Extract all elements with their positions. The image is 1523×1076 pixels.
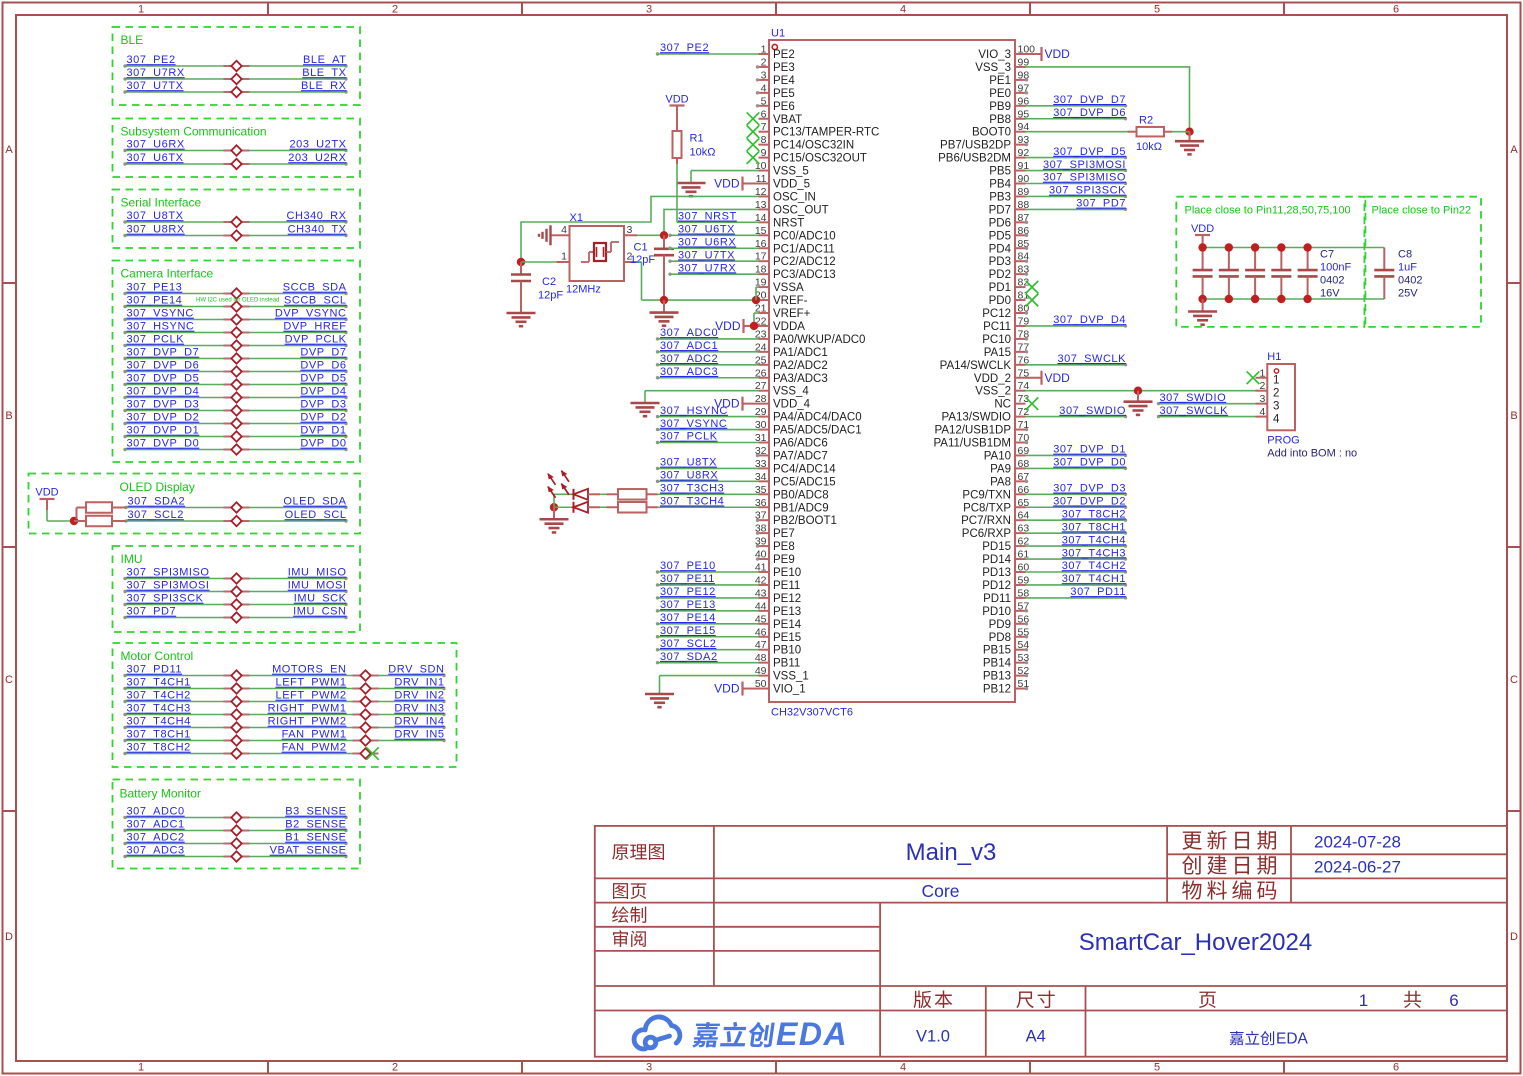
svg-text:1: 1 bbox=[1273, 375, 1279, 387]
svg-text:IMU_MOSI: IMU_MOSI bbox=[288, 580, 347, 592]
svg-text:DRV_IN5: DRV_IN5 bbox=[394, 729, 444, 741]
svg-text:1: 1 bbox=[561, 251, 567, 263]
svg-text:VDD: VDD bbox=[714, 682, 740, 696]
svg-text:PC10: PC10 bbox=[982, 334, 1011, 346]
net labels 307_ADC0-3 U1 pins 23-26 bbox=[656, 327, 759, 379]
svg-text:SCCB_SCL: SCCB_SCL bbox=[284, 295, 346, 307]
resistor R1 10k NRST pull-up with VDD bbox=[665, 94, 715, 165]
svg-text:307_U7RX: 307_U7RX bbox=[127, 67, 185, 79]
svg-text:307_SCL2: 307_SCL2 bbox=[128, 509, 184, 521]
svg-text:R2: R2 bbox=[1139, 115, 1153, 127]
title label 版本 bbox=[914, 991, 953, 1009]
VDD and I2C pull-up resistors for OLED bbox=[35, 487, 126, 527]
net labels U1 pins 66-58 bbox=[1026, 483, 1128, 600]
svg-text:307_SDA2: 307_SDA2 bbox=[660, 651, 718, 663]
svg-text:BLE: BLE bbox=[121, 33, 144, 47]
svg-text:D: D bbox=[5, 931, 13, 943]
svg-text:307_PD11: 307_PD11 bbox=[127, 664, 183, 676]
svg-text:307_U8TX: 307_U8TX bbox=[127, 210, 184, 222]
svg-text:307_U6RX: 307_U6RX bbox=[678, 236, 736, 248]
svg-text:VSSA: VSSA bbox=[773, 282, 804, 294]
svg-text:307_T4CH2: 307_T4CH2 bbox=[127, 690, 191, 702]
svg-text:307_PE14: 307_PE14 bbox=[660, 612, 716, 624]
svg-text:PE12: PE12 bbox=[773, 593, 801, 605]
svg-text:12pF: 12pF bbox=[630, 254, 655, 266]
net labels 307_DVP_D7 D6 U1 pins 96 95 bbox=[1026, 94, 1128, 120]
net labels 307_U6TX U6RX U7TX U7RX U1 pins 15-18 bbox=[668, 224, 758, 276]
wire crystal pin 3 to OSC_OUT junction bbox=[637, 231, 668, 239]
svg-text:HW I2C used for OLED instead: HW I2C used for OLED instead bbox=[196, 298, 279, 304]
svg-text:PC1/ADC11: PC1/ADC11 bbox=[773, 243, 835, 255]
svg-text:VDD: VDD bbox=[665, 94, 688, 106]
svg-text:DVP_PCLK: DVP_PCLK bbox=[285, 334, 347, 346]
ground below decoupling bank bbox=[1188, 299, 1217, 325]
svg-text:307_U6TX: 307_U6TX bbox=[127, 152, 184, 164]
svg-text:307_ADC1: 307_ADC1 bbox=[660, 340, 718, 352]
wire net 307_SWCLK to H1 pin 4 bbox=[1157, 405, 1256, 419]
svg-text:307_ADC0: 307_ADC0 bbox=[660, 327, 718, 339]
svg-text:3: 3 bbox=[1273, 400, 1279, 412]
svg-text:307_DVP_D3: 307_DVP_D3 bbox=[127, 399, 200, 411]
capacitor C7 unit 2 100nF bbox=[1219, 243, 1239, 303]
svg-text:PC15/OSC32OUT: PC15/OSC32OUT bbox=[773, 153, 867, 165]
svg-text:PE3: PE3 bbox=[773, 62, 795, 74]
svg-text:PA4/ADC4/DAC0: PA4/ADC4/DAC0 bbox=[773, 412, 862, 424]
svg-text:PB11: PB11 bbox=[773, 658, 800, 670]
svg-text:307_PCLK: 307_PCLK bbox=[127, 334, 185, 346]
svg-text:6: 6 bbox=[1393, 4, 1399, 16]
svg-text:307_PE10: 307_PE10 bbox=[660, 560, 716, 572]
svg-text:PE15: PE15 bbox=[773, 632, 801, 644]
no-connect X on H1 pin 1 bbox=[1247, 371, 1260, 384]
svg-text:307_DVP_D2: 307_DVP_D2 bbox=[1053, 495, 1126, 507]
svg-text:25V: 25V bbox=[1398, 288, 1418, 300]
svg-text:R1: R1 bbox=[690, 133, 704, 145]
IMU group box bbox=[113, 546, 361, 632]
svg-text:PC3/ADC13: PC3/ADC13 bbox=[773, 269, 836, 281]
svg-text:VDD_5: VDD_5 bbox=[773, 179, 810, 191]
svg-text:PA7/ADC7: PA7/ADC7 bbox=[773, 450, 828, 462]
svg-text:2024-06-27: 2024-06-27 bbox=[1314, 858, 1401, 877]
svg-text:NRST: NRST bbox=[773, 217, 804, 229]
svg-text:PB1/ADC9: PB1/ADC9 bbox=[773, 502, 829, 514]
svg-text:NC: NC bbox=[994, 399, 1011, 411]
C8 value labels bbox=[1398, 249, 1422, 300]
svg-text:307_T3CH3: 307_T3CH3 bbox=[660, 483, 724, 495]
svg-text:3: 3 bbox=[646, 1062, 652, 1074]
svg-text:307_SPI3SCK: 307_SPI3SCK bbox=[1049, 185, 1126, 197]
svg-text:307_VSYNC: 307_VSYNC bbox=[127, 308, 194, 320]
svg-text:BOOT0: BOOT0 bbox=[972, 127, 1011, 139]
svg-text:VREF-: VREF- bbox=[773, 295, 808, 307]
svg-text:PA10: PA10 bbox=[984, 450, 1011, 462]
svg-text:307_DVP_D1: 307_DVP_D1 bbox=[127, 425, 200, 437]
svg-text:H1: H1 bbox=[1267, 351, 1281, 363]
title label 图页 bbox=[613, 883, 646, 899]
svg-text:307_SPI3MOSI: 307_SPI3MOSI bbox=[1043, 159, 1126, 171]
svg-text:307_SWDIO: 307_SWDIO bbox=[1059, 405, 1126, 417]
svg-text:307_PE14: 307_PE14 bbox=[127, 295, 183, 307]
svg-text:PA9: PA9 bbox=[990, 463, 1011, 475]
wire OSC_IN U1 pin12 to crystal bbox=[517, 196, 759, 266]
svg-text:Serial Interface: Serial Interface bbox=[121, 196, 202, 210]
title label 创建日期 bbox=[1182, 855, 1276, 874]
svg-text:307_SWCLK: 307_SWCLK bbox=[1160, 405, 1229, 417]
svg-text:PC12: PC12 bbox=[982, 308, 1011, 320]
svg-text:PA1/ADC1: PA1/ADC1 bbox=[773, 347, 828, 359]
svg-text:VDD: VDD bbox=[1045, 371, 1071, 385]
net labels 307_HSYNC VSYNC PCLK U1 pins 29-31 bbox=[656, 405, 759, 444]
svg-text:PA15: PA15 bbox=[984, 347, 1011, 359]
svg-text:PE4: PE4 bbox=[773, 75, 795, 87]
svg-text:6: 6 bbox=[1449, 991, 1458, 1010]
svg-text:DVP_D2: DVP_D2 bbox=[300, 412, 346, 424]
svg-text:PE7: PE7 bbox=[773, 528, 795, 540]
svg-text:307_PE13: 307_PE13 bbox=[127, 282, 183, 294]
svg-text:1: 1 bbox=[138, 1062, 144, 1074]
svg-text:PC6/RXP: PC6/RXP bbox=[962, 528, 1012, 540]
net label 307_PE2 wire to U1 pin 1 bbox=[656, 42, 759, 56]
svg-text:PE9: PE9 bbox=[773, 554, 795, 566]
H1 note Add into BOM : no bbox=[1267, 448, 1357, 460]
title page numbers 页 1 共 6 bbox=[1199, 991, 1459, 1010]
svg-text:307_T4CH1: 307_T4CH1 bbox=[1062, 573, 1126, 585]
svg-text:2024-07-28: 2024-07-28 bbox=[1314, 833, 1401, 852]
svg-text:VDD: VDD bbox=[715, 319, 741, 333]
title value SmartCar_Hover2024 bbox=[1079, 929, 1312, 956]
svg-text:307_SWCLK: 307_SWCLK bbox=[1057, 353, 1126, 365]
svg-text:Core: Core bbox=[922, 881, 960, 901]
title label 绘制 bbox=[612, 906, 646, 923]
svg-text:VDDA: VDDA bbox=[773, 321, 805, 333]
svg-text:Main_v3: Main_v3 bbox=[906, 839, 997, 866]
svg-text:VIO_3: VIO_3 bbox=[978, 49, 1011, 61]
svg-text:12MHz: 12MHz bbox=[566, 284, 601, 296]
svg-text:307_PD7: 307_PD7 bbox=[1076, 198, 1126, 210]
svg-text:PB7/USB2DP: PB7/USB2DP bbox=[940, 140, 1011, 152]
svg-text:PE6: PE6 bbox=[773, 101, 795, 113]
svg-text:307_ADC2: 307_ADC2 bbox=[127, 832, 185, 844]
title label 审阅 bbox=[613, 930, 646, 947]
svg-text:203_U2RX: 203_U2RX bbox=[288, 152, 346, 164]
svg-text:PD12: PD12 bbox=[982, 580, 1011, 592]
svg-text:DVP_D7: DVP_D7 bbox=[300, 347, 346, 359]
svg-text:307_DVP_D4: 307_DVP_D4 bbox=[1053, 314, 1126, 326]
Subsystem Communication group box bbox=[113, 119, 361, 178]
svg-text:V1.0: V1.0 bbox=[916, 1028, 950, 1046]
Camera Interface group box bbox=[113, 261, 361, 463]
svg-text:DVP_D6: DVP_D6 bbox=[300, 360, 346, 372]
svg-text:100nF: 100nF bbox=[1320, 262, 1351, 274]
svg-text:307_T8CH2: 307_T8CH2 bbox=[1062, 508, 1126, 520]
title label 原理图 bbox=[612, 844, 664, 860]
svg-text:C2: C2 bbox=[542, 276, 556, 288]
svg-text:PB12: PB12 bbox=[983, 684, 1011, 696]
svg-text:X1: X1 bbox=[570, 212, 583, 224]
wire crystal pin 2 to ground rail bbox=[637, 262, 642, 300]
svg-text:LEFT_PWM2: LEFT_PWM2 bbox=[276, 690, 347, 702]
svg-text:PB14: PB14 bbox=[983, 658, 1012, 670]
svg-text:Subsystem Communication: Subsystem Communication bbox=[121, 125, 267, 139]
svg-text:PB10: PB10 bbox=[773, 645, 801, 657]
svg-text:VSS_4: VSS_4 bbox=[773, 386, 809, 398]
OLED Display group box bbox=[29, 474, 361, 534]
svg-text:FAN_PWM1: FAN_PWM1 bbox=[282, 729, 347, 741]
svg-text:307_PD7: 307_PD7 bbox=[127, 606, 177, 618]
capacitor C7 unit 1 100nF bbox=[1193, 243, 1213, 303]
svg-text:1: 1 bbox=[1359, 991, 1368, 1010]
svg-text:307_ADC0: 307_ADC0 bbox=[127, 806, 185, 818]
net label 307_SWDIO U1 pin 72 bbox=[1026, 405, 1128, 419]
svg-text:DVP_D3: DVP_D3 bbox=[300, 399, 346, 411]
svg-text:PC11: PC11 bbox=[983, 321, 1011, 333]
svg-text:307_U7RX: 307_U7RX bbox=[678, 262, 736, 274]
svg-text:2: 2 bbox=[761, 56, 767, 68]
ground at U1 pin 27 VSS_4 bbox=[631, 391, 759, 417]
svg-text:Place close to Pin11,28,50,75,: Place close to Pin11,28,50,75,100 bbox=[1185, 205, 1351, 217]
svg-text:3: 3 bbox=[761, 69, 767, 81]
wire net 307_NRST U1 pin 14 bbox=[677, 164, 759, 223]
capacitor C2 12pF with ground bbox=[507, 262, 564, 326]
svg-text:PE8: PE8 bbox=[773, 541, 795, 553]
svg-text:4: 4 bbox=[761, 82, 767, 94]
svg-text:SCCB_SDA: SCCB_SDA bbox=[283, 282, 347, 294]
svg-text:PE10: PE10 bbox=[773, 567, 801, 579]
svg-text:A4: A4 bbox=[1026, 1028, 1046, 1046]
title label 尺寸 bbox=[1016, 991, 1054, 1009]
svg-text:5: 5 bbox=[761, 95, 767, 107]
svg-text:PD9: PD9 bbox=[989, 619, 1011, 631]
svg-text:DRV_IN2: DRV_IN2 bbox=[394, 690, 444, 702]
svg-text:307_DVP_D7: 307_DVP_D7 bbox=[127, 347, 200, 359]
svg-text:CH340_RX: CH340_RX bbox=[286, 210, 346, 222]
connector H1 4-pin programming header bbox=[1256, 351, 1296, 430]
svg-text:RIGHT_PWM1: RIGHT_PWM1 bbox=[268, 703, 347, 715]
svg-text:DVP_VSYNC: DVP_VSYNC bbox=[275, 308, 347, 320]
svg-text:PD2: PD2 bbox=[989, 269, 1011, 281]
C7 value labels bbox=[1320, 249, 1351, 300]
U1 pins 1-100 with numbers and names bbox=[755, 44, 1035, 696]
placement note box for C7 bbox=[1176, 197, 1364, 327]
svg-text:307_DVP_D5: 307_DVP_D5 bbox=[1053, 146, 1126, 158]
H1 value PROG bbox=[1267, 435, 1299, 447]
decoupling bank rails bbox=[1203, 248, 1385, 300]
capacitor C8 1uF bbox=[1374, 248, 1394, 300]
svg-text:4: 4 bbox=[561, 224, 567, 236]
svg-text:PD6: PD6 bbox=[989, 217, 1011, 229]
svg-text:BLE_TX: BLE_TX bbox=[302, 67, 346, 79]
svg-text:307_PE11: 307_PE11 bbox=[660, 573, 715, 585]
svg-text:C7: C7 bbox=[1320, 249, 1334, 261]
svg-text:307_PE15: 307_PE15 bbox=[660, 625, 716, 637]
svg-text:DVP_D0: DVP_D0 bbox=[300, 438, 346, 450]
svg-text:BLE_RX: BLE_RX bbox=[301, 80, 347, 92]
svg-text:307_PE2: 307_PE2 bbox=[127, 54, 176, 66]
svg-text:307_NRST: 307_NRST bbox=[678, 211, 737, 223]
title value Main_v3 bbox=[906, 839, 997, 866]
svg-text:3: 3 bbox=[1259, 393, 1265, 405]
svg-text:Motor Control: Motor Control bbox=[121, 649, 194, 663]
capacitor C7 unit 5 100nF bbox=[1298, 243, 1318, 303]
svg-text:PC8/TXP: PC8/TXP bbox=[963, 502, 1011, 514]
svg-text:VIO_1: VIO_1 bbox=[773, 684, 806, 696]
svg-text:PA12/USB1DP: PA12/USB1DP bbox=[935, 425, 1012, 437]
svg-text:307_HSYNC: 307_HSYNC bbox=[660, 405, 728, 417]
svg-text:LEFT_PWM1: LEFT_PWM1 bbox=[276, 677, 347, 689]
svg-text:1: 1 bbox=[138, 4, 144, 16]
svg-text:PE1: PE1 bbox=[989, 75, 1011, 87]
svg-text:OSC_IN: OSC_IN bbox=[773, 191, 816, 203]
resistor series LED1 to U1 pin 35, net 307_T3CH3 bbox=[618, 483, 759, 500]
svg-text:B: B bbox=[5, 410, 12, 422]
svg-text:VBAT: VBAT bbox=[773, 114, 802, 126]
open pin end dots on U1 bbox=[756, 65, 1028, 690]
Serial Interface group box bbox=[113, 190, 361, 249]
svg-text:OLED_SCL: OLED_SCL bbox=[285, 509, 347, 521]
svg-text:PB0/ADC8: PB0/ADC8 bbox=[773, 489, 829, 501]
svg-text:307_SPI3SCK: 307_SPI3SCK bbox=[127, 593, 204, 605]
wire net 307_SWDIO to H1 pin 3 bbox=[1157, 392, 1256, 405]
title value A4 bbox=[1026, 1028, 1046, 1046]
ground at U1 pin 49 VSS_1 bbox=[645, 676, 759, 708]
svg-text:16V: 16V bbox=[1320, 288, 1340, 300]
svg-text:PB15: PB15 bbox=[983, 645, 1011, 657]
ground at U1 pin 10 VSS_5 bbox=[677, 171, 759, 197]
svg-text:C1: C1 bbox=[634, 242, 648, 254]
title value V1.0 bbox=[916, 1028, 950, 1046]
svg-text:307_T4CH2: 307_T4CH2 bbox=[1062, 560, 1126, 572]
analog ground rail VREF- VSSA with ground bbox=[642, 287, 761, 326]
svg-text:PD15: PD15 bbox=[982, 541, 1011, 553]
svg-text:DRV_IN4: DRV_IN4 bbox=[394, 716, 444, 728]
svg-text:PE11: PE11 bbox=[773, 580, 800, 592]
svg-text:Camera Interface: Camera Interface bbox=[121, 267, 214, 281]
svg-text:307_U7TX: 307_U7TX bbox=[127, 80, 184, 92]
svg-text:EDA: EDA bbox=[1276, 1031, 1309, 1048]
svg-text:PD4: PD4 bbox=[989, 243, 1012, 255]
Motor Control group box bbox=[113, 643, 457, 767]
svg-text:PA0/WKUP/ADC0: PA0/WKUP/ADC0 bbox=[773, 334, 865, 346]
svg-text:PA14/SWCLK: PA14/SWCLK bbox=[940, 360, 1012, 372]
svg-text:4: 4 bbox=[1273, 413, 1280, 425]
svg-text:B2_SENSE: B2_SENSE bbox=[285, 819, 346, 831]
svg-text:A: A bbox=[5, 144, 13, 156]
svg-text:307_VSYNC: 307_VSYNC bbox=[660, 418, 727, 430]
svg-text:CH32V307VCT6: CH32V307VCT6 bbox=[771, 707, 853, 719]
svg-text:PB2/BOOT1: PB2/BOOT1 bbox=[773, 515, 837, 527]
svg-text:307_SPI3MISO: 307_SPI3MISO bbox=[127, 567, 210, 579]
svg-text:VDD_4: VDD_4 bbox=[773, 399, 811, 411]
svg-text:9: 9 bbox=[761, 147, 767, 159]
svg-text:PB3: PB3 bbox=[989, 191, 1011, 203]
svg-text:1: 1 bbox=[761, 44, 767, 56]
svg-text:PD5: PD5 bbox=[989, 230, 1011, 242]
svg-text:BLE_AT: BLE_AT bbox=[303, 54, 346, 66]
svg-text:12pF: 12pF bbox=[538, 290, 563, 302]
svg-text:6: 6 bbox=[761, 108, 767, 120]
svg-text:PA11/USB1DM: PA11/USB1DM bbox=[933, 438, 1011, 450]
svg-text:DVP_D4: DVP_D4 bbox=[300, 386, 346, 398]
capacitor C7 unit 4 100nF bbox=[1271, 243, 1291, 303]
VDD at U1 pin 50 VIO_1 bbox=[714, 682, 758, 696]
svg-text:C8: C8 bbox=[1398, 249, 1412, 261]
svg-text:PB8: PB8 bbox=[989, 114, 1011, 126]
svg-text:307_HSYNC: 307_HSYNC bbox=[127, 321, 195, 333]
svg-text:307_DVP_D4: 307_DVP_D4 bbox=[127, 386, 200, 398]
svg-text:2: 2 bbox=[392, 1062, 398, 1074]
svg-text:PA13/SWDIO: PA13/SWDIO bbox=[942, 412, 1011, 424]
svg-text:PB4: PB4 bbox=[989, 179, 1011, 191]
title label 物料编码 bbox=[1182, 880, 1276, 899]
svg-text:PD0: PD0 bbox=[989, 295, 1011, 307]
svg-text:SmartCar_Hover2024: SmartCar_Hover2024 bbox=[1079, 929, 1312, 956]
VDD at U1 pin 28 VDD_4 bbox=[714, 397, 758, 411]
svg-text:307_T4CH3: 307_T4CH3 bbox=[127, 703, 191, 715]
svg-text:VREF+: VREF+ bbox=[773, 308, 811, 320]
svg-text:307_ADC1: 307_ADC1 bbox=[127, 819, 185, 831]
LED cathode junction and ground bbox=[540, 494, 574, 532]
svg-text:307_SDA2: 307_SDA2 bbox=[128, 496, 186, 508]
svg-text:EDA: EDA bbox=[776, 1016, 848, 1052]
svg-text:307_T8CH1: 307_T8CH1 bbox=[127, 729, 191, 741]
title value Core bbox=[922, 881, 960, 901]
net labels U1 pins 92-88 bbox=[1026, 146, 1128, 211]
svg-text:307_T8CH1: 307_T8CH1 bbox=[1062, 521, 1126, 533]
svg-text:5: 5 bbox=[1154, 1062, 1160, 1074]
svg-text:307_PE2: 307_PE2 bbox=[660, 42, 709, 54]
svg-text:DRV_SDN: DRV_SDN bbox=[388, 664, 444, 676]
svg-text:PC9/TXN: PC9/TXN bbox=[962, 489, 1011, 501]
net labels 307_U8TX U8RX U1 pins 33-34 bbox=[656, 457, 759, 483]
svg-text:307_U8RX: 307_U8RX bbox=[660, 470, 718, 482]
svg-text:Add into BOM : no: Add into BOM : no bbox=[1267, 448, 1357, 460]
svg-text:PA8: PA8 bbox=[990, 476, 1011, 488]
svg-text:VDD: VDD bbox=[714, 177, 740, 191]
svg-text:5: 5 bbox=[1154, 4, 1160, 16]
svg-text:PC2/ADC12: PC2/ADC12 bbox=[773, 256, 836, 268]
svg-text:PA6/ADC6: PA6/ADC6 bbox=[773, 438, 828, 450]
svg-text:3: 3 bbox=[646, 4, 652, 16]
resistor series LED2 to U1 pin 36, net 307_T3CH4 bbox=[618, 495, 759, 512]
svg-text:307_DVP_D3: 307_DVP_D3 bbox=[1053, 483, 1126, 495]
LED D1 bbox=[548, 471, 618, 500]
svg-text:307_T4CH3: 307_T4CH3 bbox=[1062, 547, 1126, 559]
svg-text:VBAT_SENSE: VBAT_SENSE bbox=[270, 845, 347, 857]
svg-text:PE14: PE14 bbox=[773, 619, 802, 631]
net labels 307_DVP_D1 D0 U1 pins 69 68 bbox=[1026, 444, 1128, 470]
svg-text:DRV_IN1: DRV_IN1 bbox=[394, 677, 444, 689]
VDD feeding decoupling bank bbox=[1191, 223, 1214, 248]
svg-text:D: D bbox=[1510, 931, 1518, 943]
svg-text:203_U2TX: 203_U2TX bbox=[290, 139, 347, 151]
svg-text:6: 6 bbox=[1393, 1062, 1399, 1074]
svg-text:3: 3 bbox=[627, 224, 633, 236]
svg-text:PD1: PD1 bbox=[989, 282, 1011, 294]
svg-text:307_T8CH2: 307_T8CH2 bbox=[127, 742, 191, 754]
svg-text:307_T4CH4: 307_T4CH4 bbox=[1062, 534, 1126, 546]
placement note box for C8 bbox=[1365, 197, 1481, 327]
svg-text:307_SPI3MISO: 307_SPI3MISO bbox=[1043, 172, 1126, 184]
VDD at U1 pin 11 VDD_5 bbox=[714, 177, 758, 191]
svg-text:307_DVP_D6: 307_DVP_D6 bbox=[1053, 107, 1126, 119]
ground at crystal X1 pin 4 bbox=[539, 225, 557, 245]
svg-text:PC7/RXN: PC7/RXN bbox=[961, 515, 1011, 527]
svg-text:VDD: VDD bbox=[35, 487, 58, 499]
LED D2 bbox=[548, 484, 618, 513]
svg-text:DVP_HREF: DVP_HREF bbox=[283, 321, 346, 333]
svg-text:PE13: PE13 bbox=[773, 606, 801, 618]
svg-text:307_U6RX: 307_U6RX bbox=[127, 139, 185, 151]
